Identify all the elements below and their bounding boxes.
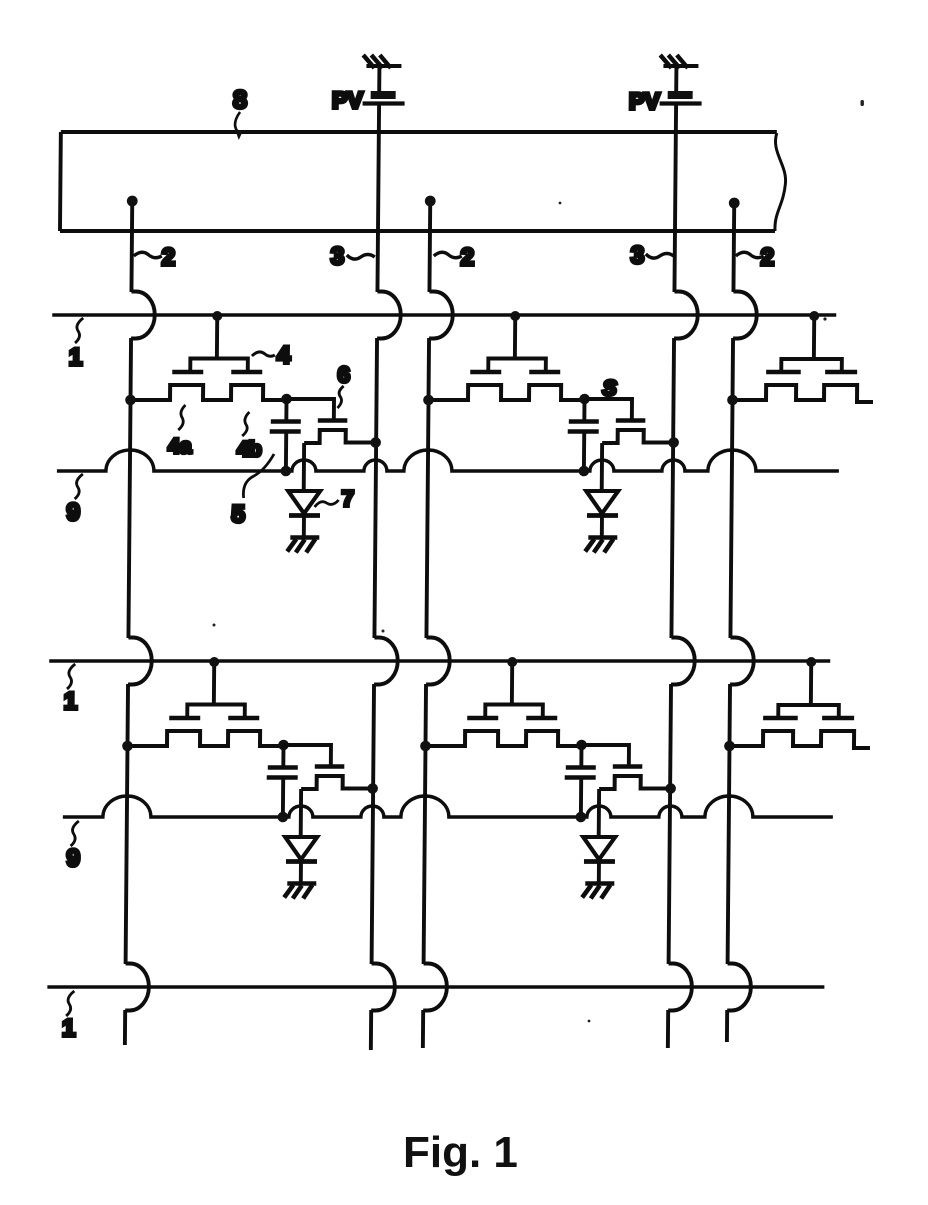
stray scan specks bbox=[213, 100, 864, 1022]
label 2 (third) leader tilde bbox=[736, 252, 764, 258]
row line 9 (first) with hops bbox=[57, 450, 839, 471]
line 2c hop over row 1 bbox=[733, 292, 757, 339]
svg-text:2: 2 bbox=[461, 244, 475, 271]
label 4 leader tilde bbox=[252, 352, 275, 356]
label 4b leader bbox=[242, 412, 249, 436]
line 3a hop over row 1'' bbox=[371, 964, 395, 1011]
column line 2b bbox=[423, 200, 430, 1048]
svg-text:2: 2 bbox=[162, 244, 176, 271]
label 1 row A leader bbox=[75, 318, 83, 343]
label 9 row A leader bbox=[75, 474, 83, 499]
label 6 leader bbox=[337, 386, 343, 408]
svg-text:PV: PV bbox=[629, 88, 661, 114]
row line 9' (second) with hops bbox=[63, 796, 833, 817]
svg-text:1: 1 bbox=[62, 1015, 76, 1042]
pixel cell row B col 1 bbox=[121, 657, 379, 899]
svg-text:Fig. 1: Fig. 1 bbox=[403, 1128, 518, 1177]
line 2a hop over row 1 bbox=[131, 292, 155, 339]
row line 1'' (third) bbox=[47, 985, 824, 988]
svg-text:4: 4 bbox=[277, 342, 291, 369]
line 2a hop over row 1'' bbox=[125, 964, 149, 1011]
column line 3b bbox=[668, 103, 676, 1048]
column line 2a bbox=[125, 200, 132, 1045]
svg-text:8: 8 bbox=[233, 86, 247, 114]
line 2b hop over row 1'' bbox=[423, 964, 447, 1011]
line 2b hop over row 1 bbox=[429, 292, 453, 339]
svg-text:2: 2 bbox=[761, 244, 775, 271]
svg-text:3: 3 bbox=[631, 242, 645, 269]
label 8 leader bbox=[235, 112, 240, 132]
line 3b hop over row 1 bbox=[674, 292, 698, 339]
svg-text:3: 3 bbox=[331, 243, 345, 270]
pixel cell row B col 2 bbox=[419, 657, 677, 899]
line 3b hop over row 1' bbox=[671, 638, 695, 685]
bus 8 top line bbox=[61, 130, 777, 134]
partial cell row A col 3 bbox=[727, 311, 874, 405]
bus 8 bottom line bbox=[60, 229, 775, 233]
column line 3a bbox=[371, 103, 379, 1050]
svg-text:7: 7 bbox=[342, 486, 354, 511]
svg-text:4a: 4a bbox=[168, 435, 192, 458]
line 2a hop over row 1' bbox=[128, 638, 152, 685]
label 2 (second) leader tilde bbox=[434, 252, 462, 258]
label 2 (first) leader tilde bbox=[134, 252, 162, 258]
pixel cell row A col 1 bbox=[124, 311, 382, 553]
label 3 (second) leader tilde bbox=[646, 254, 674, 259]
row line 1 (first) bbox=[52, 313, 836, 316]
bus 8 torn right edge bbox=[775, 133, 786, 231]
partial cell row B col 3 bbox=[724, 657, 871, 751]
line 2c hop over row 1' bbox=[730, 638, 754, 685]
svg-text:6: 6 bbox=[338, 362, 350, 387]
label 7 leader tilde bbox=[315, 500, 339, 507]
row line 1' (second) bbox=[49, 659, 830, 662]
PV source at line 3a bbox=[363, 55, 405, 104]
label 1 row B leader bbox=[67, 664, 75, 689]
bus 8 left edge bbox=[58, 132, 63, 231]
label 5 leader bbox=[243, 454, 274, 498]
svg-text:PV: PV bbox=[332, 87, 364, 113]
line 3a hop over row 1 bbox=[377, 292, 401, 339]
svg-text:1: 1 bbox=[64, 688, 78, 715]
line 2c hop over row 1'' bbox=[727, 964, 751, 1011]
label 4a leader bbox=[178, 405, 185, 430]
line 2c bus dot bbox=[729, 198, 740, 209]
label 9 row B leader bbox=[71, 821, 79, 846]
svg-text:1: 1 bbox=[69, 344, 83, 371]
column line 2c bbox=[727, 202, 734, 1042]
line 3b hop over row 1'' bbox=[668, 964, 692, 1011]
svg-text:S: S bbox=[603, 377, 617, 400]
line 2a bus dot bbox=[127, 196, 138, 207]
label 8 leader arrowhead bbox=[235, 129, 243, 140]
line 3a hop over row 1' bbox=[374, 638, 398, 685]
pixel cell row A col 2 bbox=[422, 311, 680, 553]
PV source at line 3b bbox=[660, 55, 702, 104]
label 1 row C leader bbox=[66, 991, 74, 1016]
line 2b hop over row 1' bbox=[426, 638, 450, 685]
svg-text:5: 5 bbox=[231, 501, 245, 528]
svg-text:9: 9 bbox=[66, 499, 80, 526]
line 2b bus dot bbox=[425, 196, 436, 207]
label 3 (first) leader tilde bbox=[347, 255, 375, 260]
svg-text:9: 9 bbox=[66, 845, 80, 872]
svg-text:4b: 4b bbox=[237, 438, 262, 461]
